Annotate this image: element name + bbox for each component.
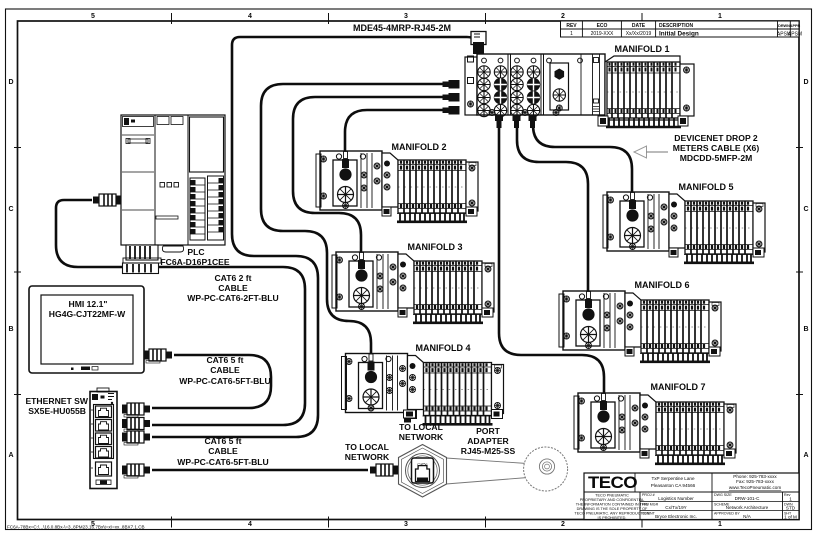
hex nut — [399, 445, 447, 498]
svg-text:2019-XXX: 2019-XXX — [591, 31, 614, 37]
svg-text:1: 1 — [718, 521, 722, 528]
svg-text:MDCDD-5MFP-2M: MDCDD-5MFP-2M — [680, 153, 753, 163]
svg-text:MDE45-4MRP-RJ45-2M: MDE45-4MRP-RJ45-2M — [353, 23, 451, 33]
devicenet drop to manifold7 — [499, 124, 604, 393]
manifold 2 — [316, 151, 478, 222]
wrench handle — [446, 458, 528, 484]
module with slot — [547, 58, 552, 63]
svg-text:APPROVED BY: APPROVED BY — [714, 512, 740, 516]
svg-text:A: A — [8, 452, 13, 459]
svg-text:Xx/Xx/2019: Xx/Xx/2019 — [626, 31, 652, 37]
svg-text:4: 4 — [248, 13, 252, 20]
svg-text:REV: REV — [566, 23, 577, 29]
revision table — [561, 21, 803, 38]
svg-text:NETWORK: NETWORK — [345, 452, 390, 462]
TECO logo — [588, 473, 637, 492]
top elbow connector — [467, 37, 478, 48]
main body — [477, 54, 605, 115]
svg-text:WP-PC-CAT6-5FT-BLU: WP-PC-CAT6-5FT-BLU — [177, 457, 269, 467]
svg-text:TO LOCAL: TO LOCAL — [345, 442, 389, 452]
manifold 4 — [342, 354, 504, 425]
svg-text:C: C — [803, 206, 808, 213]
cable manifold1 port2 to manifold3 top — [293, 97, 443, 252]
svg-text:ADAPTER: ADAPTER — [467, 436, 509, 446]
svg-text:STD: STD — [786, 506, 796, 511]
svg-text:ETHERNET SW: ETHERNET SW — [25, 396, 88, 406]
svg-text:Bryce Electronic Inc.: Bryce Electronic Inc. — [655, 514, 697, 519]
svg-text:PROPRIETARY AND CONFIDENTIAL: PROPRIETARY AND CONFIDENTIAL — [580, 498, 645, 502]
svg-text:PRJ MGR: PRJ MGR — [642, 503, 659, 507]
cable manifold1 port3 to manifold2 top — [345, 110, 443, 151]
cable switch port5 to port adapter — [152, 469, 368, 471]
svg-text:CABLE: CABLE — [208, 446, 238, 456]
svg-text:Initial Design: Initial Design — [659, 31, 699, 38]
svg-text:TO LOCAL: TO LOCAL — [399, 422, 443, 432]
svg-text:N/A: N/A — [743, 514, 752, 519]
svg-text:MANIFOLD 7: MANIFOLD 7 — [651, 382, 706, 392]
svg-text:CAT6 2 ft: CAT6 2 ft — [214, 273, 251, 283]
svg-text:CAT6 5 ft: CAT6 5 ft — [206, 355, 243, 365]
svg-text:Fax: 925-783-xxxx: Fax: 925-783-xxxx — [736, 479, 774, 484]
svg-text:1 of M: 1 of M — [784, 515, 797, 520]
svg-text:WP-PC-CAT6-5FT-BLU: WP-PC-CAT6-5FT-BLU — [179, 376, 271, 386]
svg-text:PORT: PORT — [476, 426, 501, 436]
PLC FC6A-D16P1CEE — [93, 115, 225, 274]
svg-text:HG4G-CJT22MF-W: HG4G-CJT22MF-W — [49, 309, 126, 319]
HMI HG4G-CJT22MF-W — [29, 286, 172, 373]
svg-text:METERS CABLE (X6): METERS CABLE (X6) — [673, 143, 760, 153]
ethernet switch SX5E-HU055B — [90, 388, 150, 489]
svg-text:DWG SIZE: DWG SIZE — [714, 493, 732, 497]
cable PLC to switch port2 (CAT6 2ft) — [56, 200, 305, 425]
manifold 3 — [332, 252, 494, 323]
plc ethernet plug on left — [93, 194, 121, 206]
svg-text:TECO PNEUMATIC. ANY REPRODUCTI: TECO PNEUMATIC. ANY REPRODUCTION — [574, 512, 649, 516]
svg-text:2: 2 — [561, 521, 565, 528]
plugs on right — [122, 403, 150, 417]
svg-text:CABLE: CABLE — [210, 365, 240, 375]
svg-text:1: 1 — [789, 497, 792, 502]
svg-text:SX5E-HU055B: SX5E-HU055B — [28, 406, 86, 416]
devicenet drop arrow — [634, 146, 668, 158]
svg-text:MANIFOLD 4: MANIFOLD 4 — [416, 343, 471, 353]
svg-text:IS PROHIBITED.: IS PROHIBITED. — [598, 516, 627, 520]
svg-text:5: 5 — [91, 13, 95, 20]
svg-text:PLC: PLC — [187, 247, 204, 257]
svg-text:B: B — [803, 326, 808, 333]
manifold 7 — [574, 393, 736, 464]
right valve array — [605, 56, 681, 127]
bottom drop connectors — [495, 115, 537, 128]
svg-text:1: 1 — [570, 31, 573, 37]
svg-text:www.TecoPneumatic.com: www.TecoPneumatic.com — [729, 485, 782, 490]
bottom connector teeth — [126, 245, 158, 260]
svg-text:MANIFOLD 1: MANIFOLD 1 — [615, 44, 670, 54]
cable manifold1 port1 to manifold4 top — [261, 84, 443, 353]
svg-text:ECO: ECO — [597, 23, 608, 29]
svg-text:3: 3 — [404, 521, 408, 528]
svg-text:B: B — [8, 326, 13, 333]
svg-text:4: 4 — [248, 521, 252, 528]
svg-text:HMI 12.1": HMI 12.1" — [69, 299, 108, 309]
svg-text:Cat5e: Cat5e — [417, 463, 427, 467]
svg-text:3: 3 — [404, 13, 408, 20]
svg-text:D: D — [8, 79, 13, 86]
svg-text:RJ45-M25-SS: RJ45-M25-SS — [461, 446, 516, 456]
svg-text:TECO PNEUMATIC: TECO PNEUMATIC — [595, 494, 629, 498]
svg-text:DRWN: DRWN — [778, 24, 790, 28]
svg-text:CLIENT: CLIENT — [642, 512, 656, 516]
cable HMI to switch port1 (CAT6 5ft) — [152, 355, 271, 408]
svg-text:Cx/Tx/19Y: Cx/Tx/19Y — [665, 505, 686, 510]
left bracket — [465, 57, 477, 115]
svg-text:MANIFOLD 5: MANIFOLD 5 — [679, 182, 734, 192]
svg-text:FC6A-D16P1CEE: FC6A-D16P1CEE — [160, 257, 230, 267]
devicenet drop to manifold5 — [533, 124, 632, 192]
svg-text:Logistics Number: Logistics Number — [658, 496, 694, 501]
svg-text:MANIFOLD 3: MANIFOLD 3 — [408, 242, 463, 252]
svg-text:TxP Serpentine Lane: TxP Serpentine Lane — [651, 476, 695, 481]
left port nubs — [443, 80, 460, 115]
svg-text:MANIFOLD 2: MANIFOLD 2 — [392, 142, 447, 152]
svg-text:Pleasanton CA 94566: Pleasanton CA 94566 — [651, 483, 696, 488]
title block — [574, 473, 799, 520]
cable MDE45-4MRP-RJ45-2M : manifold1 top to switch port3 — [152, 37, 467, 437]
manifold 4 spare network port — [404, 410, 416, 423]
svg-text:APSM: APSM — [788, 32, 802, 38]
svg-text:CAT6 5 ft: CAT6 5 ft — [204, 436, 241, 446]
devicenet drop to manifold6 — [517, 124, 588, 291]
svg-text:APPR: APPR — [790, 24, 801, 28]
svg-text:C: C — [8, 206, 13, 213]
svg-text:WP-PC-CAT6-2FT-BLU: WP-PC-CAT6-2FT-BLU — [187, 293, 279, 303]
svg-text:DESCRIPTION: DESCRIPTION — [659, 23, 694, 29]
svg-text:NETWORK: NETWORK — [399, 432, 444, 442]
terminal strips — [190, 176, 224, 240]
svg-text:MANIFOLD 6: MANIFOLD 6 — [635, 280, 690, 290]
svg-text:D: D — [803, 79, 808, 86]
svg-text:DATE: DATE — [632, 23, 646, 29]
svg-text:1: 1 — [718, 13, 722, 20]
manifold 5 — [603, 192, 765, 263]
svg-text:FC6A-78Bx=C:\...\16.0.8Bx-\=3.: FC6A-78Bx=C:\...\16.0.8Bx-\=3..8PM23.16.… — [7, 525, 145, 530]
manifold 6 — [559, 291, 721, 362]
svg-text:Network Architecture: Network Architecture — [726, 505, 769, 510]
svg-text:A: A — [803, 452, 808, 459]
svg-text:DEVICENET DROP 2: DEVICENET DROP 2 — [674, 133, 758, 143]
svg-text:2: 2 — [561, 13, 565, 20]
valve station circles — [478, 58, 559, 117]
svg-text:THE INFORMATION CONTAINED IN T: THE INFORMATION CONTAINED IN THIS — [576, 503, 649, 507]
svg-text:TECO: TECO — [588, 473, 637, 492]
svg-text:PROJ #: PROJ # — [642, 493, 655, 497]
svg-text:DRW-101-C: DRW-101-C — [735, 496, 761, 501]
svg-text:CABLE: CABLE — [218, 283, 248, 293]
4 ports — [91, 405, 114, 477]
port adapter RJ45-M25-SS — [370, 445, 568, 498]
svg-text:DRAWING IS THE SOLE PROPERTY O: DRAWING IS THE SOLE PROPERTY OF — [577, 507, 648, 511]
